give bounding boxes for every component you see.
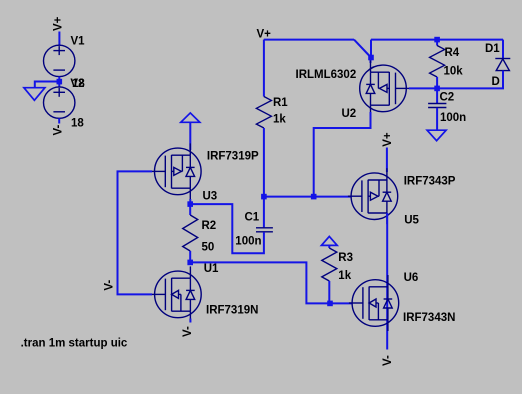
wire (D1 anode down to RC node) [437, 71, 503, 89]
svg-text:100n: 100n [440, 112, 466, 124]
svg-text:10k: 10k [444, 65, 464, 77]
wire (V+ rail down to R1) [263, 40, 265, 97]
svg-text:U3: U3 [203, 191, 218, 203]
p-mosfet U5 [348, 168, 398, 224]
svg-text:D: D [492, 76, 500, 88]
svg-text:D1: D1 [485, 43, 500, 55]
wire (junction into U2 source pin) [370, 58, 372, 64]
svg-text:V+: V+ [382, 132, 394, 147]
node junction U3 drain / R2 top [187, 201, 193, 207]
capacitor C1 [256, 228, 273, 232]
svg-text:.tran 1m startup uic: .tran 1m startup uic [21, 338, 128, 350]
capacitor C2 [428, 104, 446, 108]
svg-text:V2: V2 [70, 78, 84, 90]
wire (R4 bottom to RC node) [436, 77, 438, 88]
svg-text:IRLML6302: IRLML6302 [296, 69, 357, 81]
voltage source V1 [44, 45, 75, 76]
svg-text:R4: R4 [445, 47, 460, 59]
wire (central node to U5 gate) [264, 196, 352, 198]
svg-text:50: 50 [202, 241, 215, 253]
node junction R1/C1 [261, 194, 267, 200]
svg-text:V1: V1 [71, 36, 86, 48]
svg-text:V+: V+ [53, 16, 65, 31]
svg-text:U1: U1 [204, 263, 219, 275]
wire (R2 bottom to U1 drain junction) [189, 251, 191, 262]
wire (flag to R3 top) [328, 245, 330, 248]
svg-text:18: 18 [71, 118, 84, 130]
node junction at U2 source [368, 55, 374, 61]
svg-text:V-: V- [382, 355, 394, 366]
svg-text:R3: R3 [338, 252, 353, 264]
wire (top rail to R4 and D1) [371, 39, 503, 41]
wire (R1 bottom to node A) [263, 128, 265, 197]
node junction at C2 top [434, 86, 440, 92]
wire (V2 minus to V- flag) [58, 118, 60, 123]
svg-text:C1: C1 [245, 211, 260, 223]
p-mosfet U3 [151, 143, 201, 199]
wire (junction to R2 top) [189, 204, 191, 215]
wire (U5 drain through U6 to V- flag) [386, 213, 388, 350]
resistor R1 [256, 97, 271, 129]
svg-text:1k: 1k [273, 113, 286, 125]
p-mosfet U2 [360, 60, 410, 116]
wire (U3 gate to U1 gate) [118, 171, 153, 294]
wire (U1 drain node across to U6 gate) [190, 262, 352, 303]
wire (C1 bottom bend to U3 drain node) [191, 204, 264, 253]
node junction U2 drain on central wire [311, 194, 317, 200]
svg-text:U6: U6 [404, 272, 419, 284]
wire (junction into R4 top) [436, 40, 438, 46]
svg-text:U5: U5 [404, 214, 419, 226]
svg-text:100n: 100n [235, 236, 261, 248]
svg-text:V-: V- [104, 280, 116, 291]
wire (C2 bottom to ground) [436, 108, 438, 130]
wire (V1 minus to V2 plus) [58, 77, 60, 87]
wire (RC node to C2 top plate) [436, 88, 438, 103]
svg-text:IRF7319P: IRF7319P [207, 150, 259, 162]
svg-text:V+: V+ [257, 28, 272, 40]
wire (U1 source to V- flag) [189, 319, 191, 323]
node junction R3 bottom / U6 gate [327, 301, 333, 307]
wire (V+ flag to U5 source) [386, 148, 388, 173]
ground flag (below C2) [427, 130, 446, 141]
node junction top of R4 [434, 37, 440, 43]
svg-text:1k: 1k [338, 270, 351, 282]
wire (U2 gate to RC node) [409, 87, 437, 89]
svg-text:C2: C2 [440, 91, 455, 103]
wire (corner above U2 source junction) [370, 40, 372, 58]
svg-text:IRF7343P: IRF7343P [404, 175, 456, 187]
svg-text:R1: R1 [273, 97, 288, 109]
wire (flag stem to U3 source) [189, 122, 191, 150]
n-mosfet U1 [151, 266, 201, 322]
resistor R2 [183, 215, 198, 251]
wire (central node down to C1 top plate) [263, 197, 265, 228]
svg-text:IRF7343N: IRF7343N [403, 312, 455, 324]
inverted ground flag above U3 [181, 113, 200, 122]
wire (diagonal into U2 source junction) [354, 40, 371, 58]
inverted ground flag above R3 [321, 236, 337, 245]
resistor R4 [430, 46, 445, 78]
svg-text:V-: V- [53, 124, 65, 135]
svg-text:U2: U2 [342, 108, 357, 120]
svg-text:R2: R2 [202, 220, 217, 232]
n-mosfet U6 [349, 275, 399, 331]
ground flag (left of V1/V2 junction) [24, 88, 45, 101]
wire (V+ rail horizontal) [264, 39, 354, 41]
svg-text:V-: V- [182, 326, 194, 337]
voltage source V2 [44, 87, 75, 118]
wire (U3 drain to junction) [189, 199, 191, 204]
wire (V+ flag to V1 plus terminal) [58, 32, 60, 46]
svg-text:IRF7319N: IRF7319N [206, 304, 258, 316]
resistor R3 [322, 248, 337, 281]
wire (junction to ground stub) [35, 82, 60, 88]
wire (R3 bottom to U6 gate junction) [328, 281, 330, 303]
wire (U2 drain down and left) [314, 112, 371, 197]
node junction R2 bottom / U1 drain [187, 260, 193, 266]
node junction between V1 and V2 [57, 79, 63, 85]
diode D1 [495, 59, 510, 71]
wire (top rail corner down to D1 cathode) [502, 40, 504, 59]
